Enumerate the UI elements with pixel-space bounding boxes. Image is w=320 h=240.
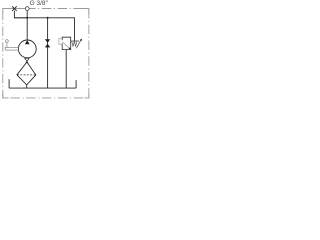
wire node A to pump — [26, 18, 28, 41]
filter F1 diamond — [17, 62, 36, 85]
pump P1 circle — [18, 40, 36, 58]
wire check valve branch — [47, 18, 49, 88]
port G 3/8" circle — [25, 7, 29, 11]
plugged port X — [12, 6, 17, 11]
check valve V1 triangles — [45, 39, 50, 43]
tank stub right — [75, 80, 77, 88]
relief valve flow arrow — [62, 42, 69, 48]
relief valve DB1 body — [62, 37, 70, 49]
border solid corners — [3, 9, 89, 98]
relief valve spring base line — [71, 40, 79, 42]
relief valve adjust arrow — [76, 40, 81, 48]
pump shaft — [5, 40, 18, 51]
wire filter to tank line — [26, 85, 28, 88]
tank stub left — [8, 79, 10, 88]
tank line wire — [9, 87, 76, 89]
node junction A — [26, 17, 28, 19]
filter element dashed — [17, 74, 36, 76]
relief valve pilot bracket — [59, 38, 62, 44]
enclosure top-left solid segment — [2, 8, 35, 10]
relief valve spring — [72, 41, 77, 46]
suction arrow (open) — [25, 58, 30, 63]
node junction B — [47, 17, 49, 19]
label G 3/8" — [30, 0, 48, 7]
pressure line wire — [14, 18, 74, 41]
wire port to node — [26, 11, 28, 18]
pump flow triangle — [25, 40, 30, 44]
enclosure dash-dot border — [3, 9, 89, 98]
wire relief valve to tank — [65, 50, 67, 89]
wire from plugged port — [14, 11, 27, 18]
